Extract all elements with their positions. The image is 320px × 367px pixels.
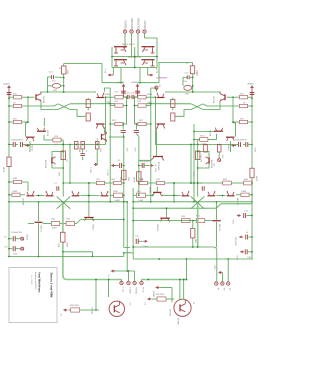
svg-text:1u: 1u: [86, 150, 88, 152]
wire rail x128: [126, 201, 128, 272]
vert res pair a: [74, 141, 81, 152]
svg-text:R11: R11: [138, 92, 142, 94]
capacitor C8r miller: [134, 123, 139, 136]
svg-text:C4: C4: [118, 160, 122, 162]
svg-text:u4: u4: [246, 232, 249, 234]
offpage arrow rb: [213, 265, 222, 282]
AGND top-left: [4, 83, 12, 99]
transistor T9a: [37, 118, 50, 136]
svg-text:BD911: BD911: [149, 187, 151, 194]
resistor R39: [8, 191, 25, 197]
capacitor C10r: [183, 73, 193, 83]
svg-text:R18: R18: [138, 101, 143, 103]
svg-text:D5: D5: [214, 163, 216, 166]
arrow DSQVr: [151, 164, 158, 172]
wire drv link r: [217, 195, 226, 197]
title text date: [30, 275, 32, 286]
wire T5 emitter: [41, 102, 58, 109]
svg-text:R19: R19: [115, 101, 120, 103]
wire r1 link: [160, 288, 172, 303]
svg-text:BD911 BD912: BD911 BD912: [122, 44, 136, 46]
svg-text:BD139: BD139: [218, 224, 220, 231]
wire rail x197 up: [197, 140, 200, 197]
wire center col br: [134, 105, 136, 124]
resistor R2: [8, 102, 21, 107]
agnd symbol center-right: [132, 81, 140, 97]
resistor R9r rail: [250, 168, 259, 181]
offpage arrow r2: [144, 297, 152, 305]
AGND top-right: [248, 83, 255, 99]
svg-text:7K5: 7K5: [96, 179, 101, 181]
wire drv2 link: [81, 195, 100, 197]
svg-text:OUT_R: OUT_R: [156, 164, 158, 172]
svg-text:T10: T10: [129, 302, 131, 305]
svg-text:L-LS: L-LS: [122, 288, 124, 293]
cap group3: [237, 249, 253, 260]
label 640R b: [147, 94, 153, 96]
svg-text:R: R: [59, 68, 61, 70]
resistor R32r: [244, 179, 253, 185]
resistor R1: [9, 94, 35, 99]
wire R13 left drop: [43, 135, 45, 140]
speaker pin LS2-1: [133, 281, 137, 294]
svg-text:100n: 100n: [13, 254, 17, 256]
svg-text:2R2: 2R2: [185, 94, 190, 96]
wire rail x139: [138, 137, 140, 197]
elco C5: [8, 142, 18, 147]
resistor R34: [59, 232, 69, 247]
wire rail y208 right: [133, 204, 252, 208]
svg-text:R34: R34: [59, 242, 61, 247]
capacitor C7 mid: [54, 183, 59, 191]
wire X node diagonals r: [191, 196, 205, 208]
svg-text:LS07: LS07: [255, 146, 257, 152]
wire diff top: [70, 103, 115, 105]
cap group2: [236, 232, 253, 246]
svg-text:470R: 470R: [4, 166, 6, 172]
transistor T8 vas: [97, 132, 107, 145]
resistor R36: [69, 305, 100, 312]
svg-text:47K: 47K: [13, 118, 17, 120]
resistor R12r onrail: [194, 151, 204, 176]
wire base rail: [26, 97, 29, 136]
transistor T12 drv: [46, 191, 54, 196]
label 640R a: [105, 94, 111, 96]
svg-text:1K5: 1K5: [129, 176, 131, 181]
resistor R2r: [239, 102, 252, 107]
svg-text:22u: 22u: [184, 81, 188, 83]
capacitor C7r mid: [200, 183, 205, 191]
title text sub: [34, 272, 37, 291]
capacitor C4r: [139, 161, 151, 168]
svg-text:100uF/40V: 100uF/40V: [140, 161, 151, 163]
svg-text:C13: C13: [244, 211, 249, 213]
wire net top-left: [64, 64, 102, 83]
elco C6: [20, 142, 25, 147]
wire diff rail b: [109, 88, 111, 202]
bias transistor T16r: [212, 202, 221, 247]
offpage arrow right top: [148, 68, 159, 77]
offpage arrow r1: [152, 286, 160, 298]
wire rail x191: [190, 144, 192, 184]
wire diff bottom r: [175, 110, 191, 117]
wire y248 stub: [124, 247, 130, 249]
power transistor T17: [109, 301, 130, 317]
transistor T1: [114, 47, 127, 53]
svg-text:DGND: DGND: [152, 291, 154, 297]
resistor R6r: [134, 92, 156, 99]
wire y1445 rail r: [155, 144, 236, 146]
svg-text:C17: C17: [4, 247, 9, 249]
svg-text:Endstufe mit BD911: Endstufe mit BD911: [34, 272, 37, 291]
svg-text:AGND: AGND: [248, 83, 255, 86]
wire T5r collector: [219, 91, 221, 93]
svg-text:T9: T9: [192, 302, 194, 305]
transistor T12r drv: [208, 191, 216, 196]
label elcor: [235, 139, 247, 141]
label out vert: [197, 71, 199, 76]
svg-text:R17: R17: [137, 191, 142, 193]
wire center col a: [126, 97, 128, 105]
svg-text:-35V: -35V: [127, 147, 129, 152]
svg-text:100R: 100R: [241, 191, 247, 193]
wire left rail upper: [8, 98, 10, 158]
wire base rail r: [232, 97, 235, 136]
wire rail y202 right: [133, 201, 252, 203]
resistor R37r: [139, 179, 157, 185]
svg-text:47K: 47K: [240, 118, 244, 120]
inductor L1: [48, 84, 64, 93]
svg-text:LGND: LGND: [129, 288, 131, 294]
svg-text:C16: C16: [131, 93, 136, 95]
wire rail y201 left: [9, 201, 127, 203]
wire arrow to pins: [116, 270, 135, 272]
resistor R7: [107, 101, 127, 107]
power pin X2-3: [227, 282, 231, 292]
resistor R43r: [132, 216, 193, 223]
wire pin1 stem: [121, 280, 123, 282]
label TIP2955 left: [92, 306, 94, 314]
transistor T5 input: [36, 92, 46, 103]
wire ground step: [123, 252, 133, 259]
resistor R14 v: [121, 170, 131, 181]
svg-text:GNDPWR: GNDPWR: [137, 18, 140, 30]
wire diff top r: [146, 103, 191, 105]
resistor R4 diff: [86, 98, 90, 111]
svg-text:Stereo 2 mal 40W: Stereo 2 mal 40W: [49, 273, 53, 298]
arrow DSQV2: [108, 164, 117, 176]
title text author: [38, 272, 42, 293]
label T3 T4: [128, 57, 142, 59]
wire cross X left: [58, 104, 70, 110]
wire cluster frame: [112, 47, 157, 68]
svg-text:BD139: BD139: [40, 226, 42, 233]
wire left pt feeds: [95, 279, 109, 311]
svg-text:2K2: 2K2: [197, 69, 199, 74]
svg-text:0R22: 0R22: [67, 241, 69, 247]
resistor R42: [66, 219, 125, 226]
wire right pt feeds: [179, 279, 185, 301]
resistor R1r: [227, 94, 253, 99]
offpage arrow out-l: [107, 269, 116, 277]
resistor R7r: [134, 101, 152, 107]
transistor T15 out: [84, 218, 94, 232]
transistor T9ra: [193, 128, 223, 136]
svg-text:IN_L: IN_L: [105, 68, 107, 73]
wire rail x174: [173, 182, 175, 203]
svg-text:R: R: [186, 63, 188, 65]
wire center col b: [126, 105, 128, 124]
svg-text:C1B: C1B: [247, 257, 252, 259]
vert res pair c: [95, 141, 102, 164]
power transistor T18: [174, 299, 194, 316]
wire rail x70: [69, 144, 71, 184]
transistor T7r diff: [156, 124, 165, 129]
wire out vertical r: [197, 203, 199, 247]
svg-text:+35VDC: +35VDC: [124, 20, 127, 30]
title text main: [49, 273, 53, 298]
capacitor C4: [115, 160, 124, 168]
power pin X2-1: [215, 282, 219, 292]
vert res pair b: [81, 141, 88, 160]
svg-text:P2: P2: [222, 288, 224, 291]
svg-text:Arnd Weichhaus: Arnd Weichhaus: [38, 272, 42, 293]
resistor R39r: [236, 191, 253, 197]
resistor Rv r: [191, 221, 198, 247]
wire X node diagonals: [57, 196, 71, 208]
wire right rail lower: [251, 99, 253, 260]
wire ground rail left: [8, 256, 124, 258]
svg-text:1000uF: 1000uF: [26, 234, 28, 241]
wire zobel left: [62, 251, 93, 257]
capacitor C8 miller: [121, 123, 126, 137]
label rail right: [135, 147, 137, 152]
transistor T2: [142, 47, 155, 53]
svg-text:47K: 47K: [223, 154, 225, 158]
transistor T13 drv2: [72, 191, 80, 196]
wire rail x122: [123, 137, 125, 248]
svg-text:2K2: 2K2: [68, 69, 70, 74]
bias transistor T16: [35, 202, 43, 257]
wire left rail lower: [8, 166, 10, 257]
svg-text:C7: C7: [54, 183, 58, 185]
svg-text:1 v. 1 2007: 1 v. 1 2007: [30, 275, 32, 286]
resistor R41: [43, 219, 67, 230]
transistor T7 diff: [96, 124, 105, 129]
svg-text:R31: R31: [223, 179, 228, 181]
resistor R4r diff: [171, 98, 175, 111]
wire x190 drop: [186, 259, 188, 280]
svg-text:C9: C9: [4, 237, 7, 239]
transistor T10r mid: [198, 152, 214, 169]
svg-text:R14: R14: [201, 136, 206, 138]
wire base line right: [165, 91, 221, 93]
wire out vertical: [62, 203, 64, 278]
offpage arrow left top: [105, 68, 113, 77]
svg-text:640R: 640R: [147, 94, 153, 96]
wire cluster drop agnd R: [139, 68, 141, 84]
resistor R13: [44, 136, 63, 146]
wire pin4 stem: [141, 280, 143, 282]
svg-text:BD139: BD139: [31, 145, 33, 152]
svg-text:BD912: BD912: [156, 225, 158, 232]
label rail right2: [255, 146, 257, 152]
svg-text:R42: R42: [67, 219, 72, 221]
label T1 T2: [122, 44, 136, 46]
elco C5r: [243, 142, 253, 147]
wire T7 bottom: [104, 130, 106, 134]
resistor R24r: [186, 63, 199, 75]
wire y1445 rail: [25, 144, 106, 146]
svg-text:P1: P1: [216, 288, 218, 291]
arrow DSQV: [91, 163, 99, 173]
svg-text:+35V: +35V: [135, 147, 137, 152]
resistor R14r v: [134, 172, 144, 182]
resistor R5r diff: [171, 113, 175, 121]
svg-text:7K5: 7K5: [156, 179, 161, 181]
wire T6r top: [151, 84, 162, 92]
svg-text:IN_R: IN_R: [157, 68, 159, 73]
transistor T11 drv: [23, 191, 34, 205]
wire drv2 link r: [162, 194, 181, 196]
wire input long r: [203, 104, 239, 106]
label rail left: [127, 147, 129, 152]
wire net top-right: [159, 63, 193, 83]
label TIP2955 right: [170, 308, 179, 325]
wire T5 collector: [40, 91, 42, 93]
connector pin X1-1: [123, 20, 127, 46]
svg-text:TIP2955: TIP2955: [170, 308, 172, 316]
connector pin X1-4: [143, 20, 157, 47]
svg-text:polarisiert: polarisiert: [157, 76, 168, 79]
svg-text:GNDPWR: GNDPWR: [131, 18, 134, 30]
elco C9: [4, 234, 28, 241]
wire diff bottom: [70, 110, 86, 117]
svg-text:BD911 BD912: BD911 BD912: [128, 57, 142, 59]
net label polarisiert: [157, 76, 168, 79]
svg-text:10u: 10u: [201, 155, 203, 158]
speaker pin LS2-2: [140, 281, 144, 293]
svg-text:47K: 47K: [240, 94, 244, 96]
transistor T15r out: [156, 207, 170, 232]
svg-text:LS: LS: [60, 314, 62, 317]
wire C10r drop: [182, 77, 184, 86]
label elco2: [11, 232, 23, 234]
transistor T3: [114, 60, 127, 66]
resistor R9 rail: [4, 157, 12, 172]
vert res pair ar: [201, 144, 208, 158]
wire cluster right drop: [147, 68, 149, 76]
svg-text:+35V: +35V: [213, 265, 215, 270]
agnd symbol center-left: [118, 81, 126, 97]
arrow mid-left: [25, 144, 30, 147]
wire rail x63: [62, 140, 64, 197]
svg-text:R41: R41: [52, 219, 57, 221]
speaker pin LS1-1: [120, 281, 124, 292]
wire ground rail right: [133, 258, 253, 260]
arrow left out: [60, 308, 68, 316]
resistor R3: [8, 118, 28, 123]
svg-text:C11: C11: [135, 235, 140, 237]
wire R24 bottom: [63, 74, 65, 92]
svg-text:R12: R12: [59, 171, 61, 176]
resistor R16r: [132, 191, 153, 202]
resistor R37: [105, 179, 124, 185]
svg-text:47K: 47K: [100, 148, 102, 152]
resistor R3r: [233, 118, 253, 123]
wire rail x194: [193, 124, 195, 202]
svg-text:0R47: 0R47: [52, 228, 58, 230]
junction dots cluster: [111, 46, 158, 68]
wire rail x87: [88, 182, 90, 217]
transistor T9b: [26, 137, 35, 152]
wire base line left: [40, 91, 96, 93]
transistor T10 mid: [46, 152, 64, 169]
inductor L2: [184, 85, 193, 95]
wire diff rail a: [105, 96, 107, 144]
wire cap row: [123, 96, 138, 98]
wire R24r bottom: [192, 74, 194, 92]
capacitor C11: [135, 235, 149, 248]
arrow mid-right: [231, 144, 236, 147]
svg-text:C13: C13: [49, 72, 54, 74]
svg-text:1K: 1K: [201, 159, 203, 162]
svg-text:R40: R40: [13, 178, 18, 180]
wire input long: [22, 104, 58, 106]
wire T5r emitter: [203, 102, 220, 109]
resistor R5 diff: [86, 113, 90, 121]
capacitor C13: [48, 72, 64, 83]
svg-text:R37: R37: [112, 179, 117, 181]
svg-text:C10: C10: [185, 73, 190, 75]
svg-text:AGND: AGND: [4, 83, 11, 86]
resistor R12 onrail: [59, 151, 69, 176]
wire pin2 drop: [128, 271, 130, 281]
wire right rail upper: [251, 98, 253, 100]
title block frame: [9, 268, 57, 323]
transistor T11r drv: [227, 191, 238, 205]
transistor T8r vas: [138, 130, 164, 171]
svg-text:R43: R43: [182, 216, 187, 218]
svg-text:47K: 47K: [13, 94, 17, 96]
svg-text:100R: 100R: [12, 191, 18, 193]
transistor T14r drv3: [149, 187, 162, 197]
svg-text:BD140: BD140: [227, 145, 229, 152]
wire agnd row left: [102, 82, 124, 84]
elco C6r: [236, 142, 241, 147]
svg-text:R38: R38: [114, 191, 119, 193]
wire rail x132: [132, 188, 134, 253]
svg-text:100n: 100n: [233, 220, 235, 224]
resistor R41r: [181, 216, 212, 223]
svg-text:R36 0R22: R36 0R22: [70, 305, 80, 307]
wire T6 top: [105, 88, 111, 92]
svg-text:LS: LS: [144, 303, 146, 306]
transistor T9rb: [226, 137, 235, 152]
svg-text:470R: 470R: [134, 176, 136, 182]
svg-text:LS: LS: [107, 275, 109, 278]
svg-text:1000uF/50V: 1000uF/50V: [235, 139, 247, 141]
wire C13 drop: [47, 77, 49, 93]
svg-text:R32: R32: [244, 179, 249, 181]
svg-text:BC546: BC546: [44, 96, 46, 103]
svg-text:R10: R10: [115, 92, 120, 94]
wire out rail right: [142, 279, 187, 281]
connector pin X1-2: [130, 18, 134, 57]
svg-text:R35 0R22: R35 0R22: [156, 294, 166, 296]
svg-text:TIP2955: TIP2955: [177, 318, 179, 325]
svg-text:1K: 1K: [67, 159, 69, 162]
